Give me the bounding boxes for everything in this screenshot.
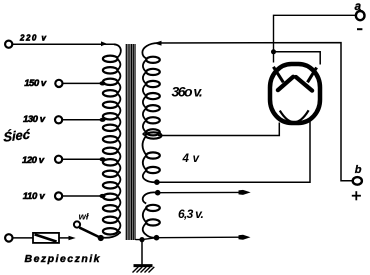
label 150V xyxy=(24,78,47,89)
label b xyxy=(355,164,362,176)
terminal b xyxy=(353,177,362,185)
label 220V xyxy=(19,34,47,43)
svg-text:wł: wł xyxy=(79,211,89,222)
terminal 110V xyxy=(55,192,62,199)
label minus xyxy=(357,28,362,30)
svg-text:6,3 v.: 6,3 v. xyxy=(178,207,204,221)
wire to ground xyxy=(141,240,143,265)
svg-text:a: a xyxy=(355,1,362,13)
terminal mains bottom xyxy=(5,234,12,241)
ground xyxy=(133,266,155,273)
svg-text:120 v: 120 v xyxy=(22,155,45,166)
wire terminal to fuse xyxy=(13,237,33,239)
svg-text:130 v: 130 v xyxy=(23,114,46,125)
svg-text:Bezpiecznik: Bezpiecznik xyxy=(25,253,101,265)
label Bezpiecznik xyxy=(25,253,101,265)
label 110V xyxy=(23,191,46,202)
label wl xyxy=(79,211,89,222)
label 130V xyxy=(23,114,46,125)
wire switch to primary bottom xyxy=(104,233,120,238)
switch wl (open) xyxy=(74,221,104,241)
terminal 220V xyxy=(5,41,12,48)
svg-text:150 v: 150 v xyxy=(24,78,47,89)
transformer primary winding entry xyxy=(114,44,121,57)
secondary 360V winding entry with arrowhead xyxy=(142,41,161,59)
junction secondary bottom / ground xyxy=(139,237,144,242)
secondary 4V winding loops xyxy=(143,137,160,183)
wire 6.3V bottom with arrow xyxy=(136,235,251,241)
tube left anode xyxy=(273,67,293,90)
wire tap 120V to primary xyxy=(62,157,105,161)
svg-text:110 v: 110 v xyxy=(23,191,46,202)
wire tap 360V/4V junction to tube filament left pin xyxy=(146,123,280,139)
wire tap 130V to primary xyxy=(62,118,105,122)
wire 360V top to terminal b xyxy=(158,43,353,181)
transformer core laminations xyxy=(126,44,135,240)
svg-text:4 v: 4 v xyxy=(182,153,200,165)
label 6.3V xyxy=(178,207,204,221)
label plus xyxy=(352,191,361,200)
tube right anode xyxy=(296,68,317,91)
svg-text:220 v: 220 v xyxy=(19,34,47,43)
wire 220V terminal to primary top xyxy=(12,43,114,45)
arrowhead on 220V wire xyxy=(101,41,107,46)
svg-text:36o v.: 36o v. xyxy=(172,83,204,99)
tube filament xyxy=(280,110,309,122)
fuse Bezpiecznik xyxy=(33,233,59,243)
wire terminal a to tube plates xyxy=(271,15,356,64)
label Siec (mains) xyxy=(3,126,31,144)
secondary 6.3V winding loops xyxy=(143,192,160,237)
terminal 150V xyxy=(55,80,62,87)
wire 4V bottom to tube filament right pin xyxy=(154,122,310,186)
transformer primary winding loops xyxy=(103,56,121,235)
secondary 360V winding loops xyxy=(143,57,160,136)
wire fuse to switch contact xyxy=(59,236,76,240)
wire 6.3V top tap with arrow xyxy=(155,190,251,196)
label a xyxy=(355,1,362,13)
label 120V xyxy=(22,155,45,166)
label 360V xyxy=(172,83,204,99)
terminal a xyxy=(356,11,365,20)
wire tap 150V to primary xyxy=(63,81,106,85)
terminal 120V xyxy=(55,156,62,163)
label 4V xyxy=(182,153,200,165)
rectifier tube envelope xyxy=(270,64,320,123)
svg-text:b: b xyxy=(355,164,362,176)
wire tap 110V to primary xyxy=(62,194,105,198)
terminal 130V xyxy=(55,116,62,123)
